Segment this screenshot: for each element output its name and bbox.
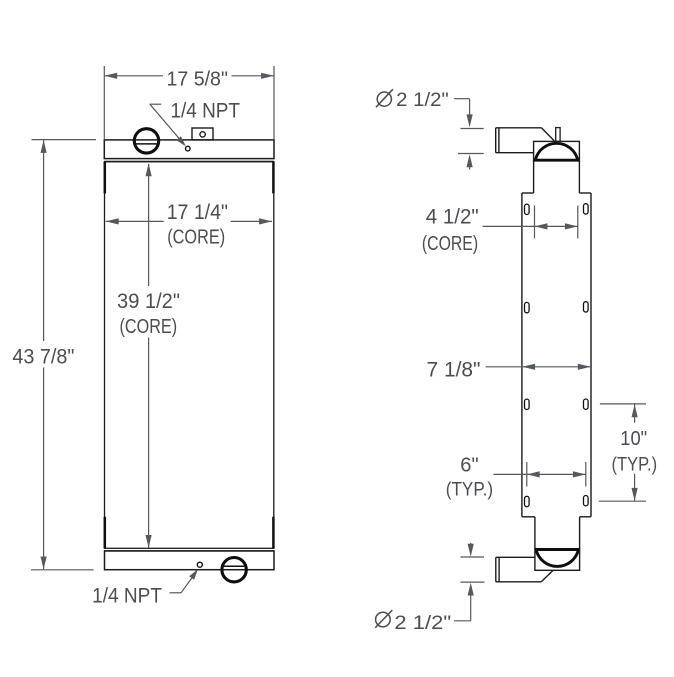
dimension 6 typ: line bbox=[494, 473, 586, 475]
dimension 39 1/2 core: vertical line upper segment bbox=[148, 164, 150, 286]
svg-text:(TYP.): (TYP.) bbox=[612, 455, 658, 476]
dia 2 1/2 top: leader vertical bbox=[469, 99, 471, 117]
dimension 17 5/8: line left segment bbox=[104, 75, 163, 77]
slot row1 right bbox=[584, 204, 589, 214]
top pipe end cap line bbox=[495, 128, 497, 153]
dimension 10 typ: vertical line upper segment bbox=[634, 405, 636, 423]
bottom tank thick top line bbox=[535, 548, 580, 551]
dimension 10 typ: bottom extension line bbox=[599, 500, 646, 502]
dimension 4 1/2 core: left arrowhead bbox=[535, 223, 548, 229]
slot row2 right bbox=[584, 302, 589, 312]
dimension 39 1/2 core: vertical line lower segment bbox=[148, 338, 150, 548]
side body bottom step left bbox=[522, 516, 535, 518]
svg-text:2 1/2": 2 1/2" bbox=[394, 613, 451, 634]
dimension 10 typ: up arrowhead bbox=[632, 404, 638, 417]
side body left edge bbox=[521, 193, 523, 517]
label dia 2 1/2 bottom: phi circle bbox=[376, 612, 391, 627]
svg-text:17 5/8": 17 5/8" bbox=[166, 68, 228, 91]
core body rectangle bbox=[105, 162, 274, 549]
bottom tank rectangle bbox=[105, 551, 275, 570]
bottom pipe bottom edge bbox=[496, 581, 542, 583]
dia 2 1/2 top: stub below up arrowhead bbox=[469, 165, 471, 170]
svg-text:43 7/8": 43 7/8" bbox=[12, 345, 74, 369]
top neck right line bbox=[578, 161, 580, 193]
dimension 7 1/8: line bbox=[486, 366, 591, 368]
dimension 6 typ: right arrowhead bbox=[573, 471, 586, 477]
label dia 2 1/2 top: phi circle bbox=[377, 92, 391, 106]
dimension 7 1/8: right arrowhead bbox=[578, 364, 591, 370]
dia 2 1/2 top: tick at pipe bottom bbox=[458, 153, 484, 155]
slot row3 left bbox=[525, 399, 530, 409]
core top line bbox=[104, 161, 274, 163]
svg-text:17 1/4": 17 1/4" bbox=[167, 201, 228, 224]
dimension 10 typ: top extension line bbox=[600, 403, 646, 405]
leader line for 1/4 NPT top bbox=[150, 104, 180, 138]
leader line for 1/4 NPT bottom bbox=[181, 577, 192, 592]
dia 2 1/2 bottom: up arrowhead bbox=[468, 583, 474, 596]
dimension 4 1/2 core: right extension line bbox=[577, 206, 579, 239]
svg-text:7 1/8": 7 1/8" bbox=[427, 358, 481, 381]
top bracket tab bbox=[556, 128, 560, 142]
dimension 43 7/8: vertical line lower segment bbox=[43, 368, 45, 570]
top pipe elbow diagonal bbox=[541, 128, 554, 141]
dimension 4 1/2 core: left extension line bbox=[534, 206, 536, 239]
svg-text:6": 6" bbox=[460, 454, 478, 476]
1/4 NPT port (top) bbox=[186, 146, 191, 151]
svg-text:(TYP.): (TYP.) bbox=[446, 480, 493, 501]
dia 2 1/2 bottom: tick at pipe bottom bbox=[461, 581, 485, 583]
dimension 17 5/8: right arrowhead bbox=[261, 73, 274, 79]
top pipe top edge bbox=[496, 127, 542, 129]
bottom pipe end cap line bbox=[495, 557, 497, 582]
drain cap (bottom, circle with line through) bbox=[222, 558, 246, 582]
dimension 17 5/8: right extension line bbox=[273, 66, 275, 139]
dia 2 1/2 bottom: leader horizontal bbox=[454, 620, 471, 622]
slot row4 right bbox=[584, 496, 589, 506]
dimension 43 7/8: top arrowhead bbox=[41, 140, 47, 153]
leader arrowhead for 1/4 NPT top bbox=[176, 136, 186, 146]
dia 2 1/2 top: down arrowhead bbox=[467, 114, 473, 127]
leader bar for 1/4 NPT bottom bbox=[170, 592, 182, 594]
dimension 43 7/8: top extension line bbox=[32, 139, 97, 141]
dimension 17 1/4 core: left arrowhead bbox=[106, 218, 119, 224]
svg-text:1/4 NPT: 1/4 NPT bbox=[92, 584, 162, 607]
drain cap chord line bbox=[223, 565, 244, 567]
core side channel thick segment bottom-left bbox=[104, 517, 107, 549]
dimension 17 1/4 core: right arrowhead bbox=[259, 218, 272, 224]
bottom neck left line bbox=[534, 517, 536, 549]
dia 2 1/2 bottom: leader vertical bbox=[470, 594, 472, 621]
bottom pipe elbow diagonal bbox=[541, 571, 553, 582]
top tank thick base line bbox=[534, 159, 580, 162]
top dome arc bbox=[535, 143, 578, 160]
filler cap chord line bbox=[135, 143, 158, 145]
bottom pipe bead line bbox=[498, 557, 500, 582]
dimension 6 typ: right extension line bbox=[585, 462, 587, 487]
dimension 6 typ: left extension line bbox=[526, 462, 528, 487]
svg-text:4 1/2": 4 1/2" bbox=[426, 205, 479, 228]
dimension 39 1/2 core: top arrowhead bbox=[146, 163, 152, 176]
side body right edge bbox=[590, 193, 592, 517]
label dia 2 1/2 bottom: phi slash bbox=[375, 610, 392, 628]
dimension 17 5/8: left extension line bbox=[103, 66, 105, 139]
svg-text:1/4 NPT: 1/4 NPT bbox=[171, 100, 241, 123]
slot row3 right bbox=[584, 399, 589, 409]
slot row1 left bbox=[525, 204, 530, 214]
core side channel thick segment top-left bbox=[104, 162, 107, 194]
svg-text:39 1/2": 39 1/2" bbox=[117, 289, 180, 313]
svg-text:(CORE): (CORE) bbox=[120, 316, 178, 338]
top neck left line bbox=[533, 161, 535, 193]
top tank rectangle bbox=[104, 140, 274, 159]
core side channel thick segment top-right bbox=[272, 162, 275, 194]
dia 2 1/2 bottom: stub above down arrowhead bbox=[470, 543, 472, 547]
dimension 43 7/8: vertical line upper segment bbox=[43, 140, 45, 341]
svg-text:(CORE): (CORE) bbox=[422, 233, 478, 255]
top pipe bottom edge bbox=[496, 152, 534, 154]
dimension 4 1/2 core: line bbox=[483, 225, 578, 227]
dimension 43 7/8: bottom arrowhead bbox=[41, 557, 47, 570]
svg-text:10": 10" bbox=[620, 428, 647, 450]
dimension 6 typ: left arrowhead bbox=[527, 471, 540, 477]
side body bottom step right bbox=[580, 516, 591, 518]
dia 2 1/2 top: tick at pipe top bbox=[461, 128, 484, 130]
dimension 7 1/8: left arrowhead bbox=[522, 364, 535, 370]
dimension 17 1/4 core: line right segment bbox=[231, 220, 272, 222]
bottom neck right line bbox=[579, 517, 581, 549]
leader bar for 1/4 NPT top bbox=[150, 103, 162, 105]
dia 2 1/2 bottom: tick at pipe top bbox=[461, 556, 485, 558]
side body top step right bbox=[579, 192, 591, 194]
dia 2 1/2 top: up arrowhead below pipe bbox=[467, 154, 473, 167]
dimension 39 1/2 core: bottom arrowhead bbox=[146, 535, 152, 548]
bracket hole bbox=[200, 132, 205, 137]
bottom pipe top edge bbox=[496, 556, 535, 558]
dimension 10 typ: down arrowhead bbox=[632, 488, 638, 501]
dimension 43 7/8: bottom extension line bbox=[31, 569, 94, 571]
dimension 10 typ: vertical line lower segment bbox=[634, 474, 636, 501]
1/4 NPT port (bottom) bbox=[197, 562, 202, 567]
mounting bracket on top tank bbox=[192, 128, 213, 140]
bottom dome arc bbox=[536, 550, 578, 567]
top pipe bead line bbox=[498, 128, 500, 153]
svg-text:2 1/2": 2 1/2" bbox=[396, 90, 449, 111]
dimension 17 5/8: left arrowhead bbox=[104, 73, 117, 79]
slot row4 left bbox=[525, 496, 530, 506]
dimension 4 1/2 core: right arrowhead bbox=[565, 223, 578, 229]
dia 2 1/2 top: leader horizontal bbox=[454, 98, 470, 100]
side body top step left bbox=[522, 192, 534, 194]
svg-text:(CORE): (CORE) bbox=[167, 226, 225, 248]
dimension 17 1/4 core: line left segment bbox=[106, 220, 164, 222]
dimension 17 5/8: line right segment bbox=[232, 75, 275, 77]
core side channel thick segment bottom-right bbox=[272, 517, 275, 549]
filler cap (top, circle with line through) bbox=[134, 129, 158, 153]
dia 2 1/2 bottom: down arrowhead above pipe bbox=[468, 544, 474, 557]
label dia 2 1/2 top: phi slash bbox=[376, 89, 393, 107]
slot row2 left bbox=[525, 302, 530, 312]
bottom tank rectangle (side view) bbox=[535, 549, 580, 571]
bottom tank top line bbox=[104, 550, 274, 552]
top tank rectangle (side view) bbox=[534, 141, 580, 160]
leader arrowhead for 1/4 NPT bottom bbox=[189, 569, 198, 580]
